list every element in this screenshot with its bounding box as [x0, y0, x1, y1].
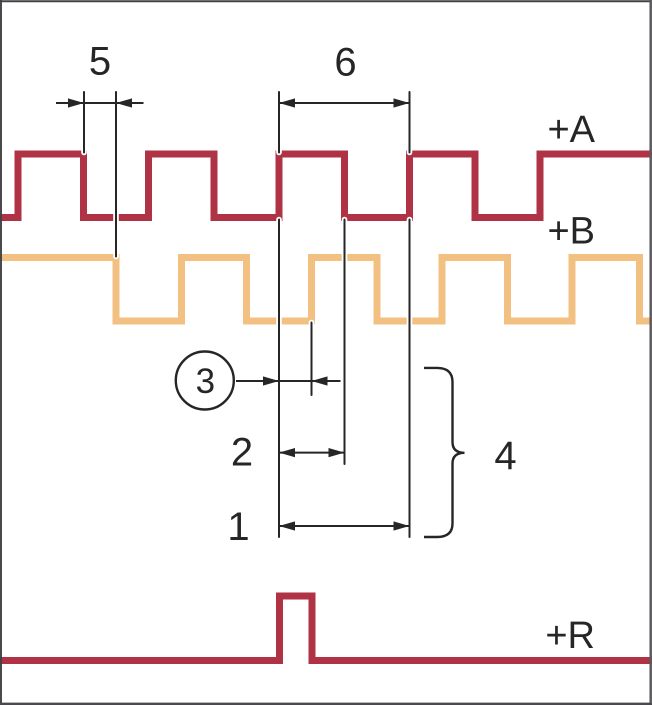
- svg-text:3: 3: [196, 362, 215, 401]
- svg-text:+R: +R: [545, 615, 595, 657]
- signal +R trace: [0, 596, 652, 661]
- svg-text:6: 6: [334, 41, 356, 85]
- svg-text:4: 4: [494, 434, 516, 478]
- callout circle 3: [176, 352, 234, 410]
- svg-text:1: 1: [227, 505, 249, 549]
- frame border left: [0, 0, 2, 705]
- dimension 6 line: [279, 98, 410, 107]
- svg-text:+A: +A: [547, 109, 595, 151]
- extension line at x=279: [278, 92, 280, 537]
- extension line at x=116: [115, 92, 117, 257]
- svg-text:2: 2: [231, 431, 253, 475]
- extension line at x=344.5: [344, 220, 346, 465]
- dimension 3 line: [236, 376, 341, 385]
- extension line at x=409.5: [409, 92, 411, 537]
- dimension 2 line: [279, 448, 345, 457]
- frame border bottom: [0, 703, 652, 705]
- extension line at x=311.5: [311, 323, 313, 396]
- extension line at x=84: [83, 92, 85, 153]
- signal +A trace: [0, 154, 652, 218]
- dimension 1 line: [279, 521, 410, 530]
- svg-text:5: 5: [89, 40, 111, 84]
- extension line casings (white halo): [84, 92, 410, 537]
- frame border top: [0, 0, 652, 2]
- signal +B trace: [0, 258, 652, 322]
- frame border right: [649, 0, 652, 705]
- dimension 5 line: [56, 98, 144, 107]
- svg-text:+B: +B: [547, 211, 595, 253]
- extension line cores: [84, 92, 410, 537]
- brace 4: [424, 368, 465, 537]
